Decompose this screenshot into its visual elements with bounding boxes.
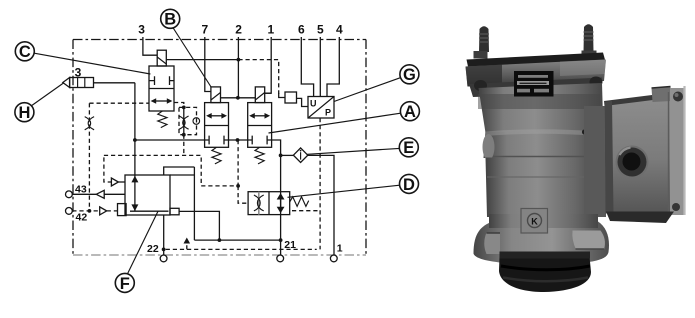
body collar ridge — [484, 132, 602, 159]
port 43 connector circle — [66, 191, 73, 198]
mounting stud right — [584, 24, 594, 52]
block bottom shadow — [606, 212, 674, 224]
throttle on exhaust pilot line — [85, 103, 94, 211]
callout line B — [173, 28, 211, 88]
svg-text:F: F — [120, 275, 130, 293]
wire silencer H to relay pilot line — [94, 82, 135, 84]
callout line G — [334, 78, 400, 102]
svg-text:E: E — [403, 139, 414, 157]
svg-text:42: 42 — [76, 211, 88, 223]
wire valve B2 to supply node — [272, 140, 281, 255]
port 43 wire with nozzle — [72, 190, 125, 198]
wire port 4 to sensor G — [327, 37, 339, 97]
flange body — [466, 60, 607, 87]
port 42 dashed wire with nozzle — [72, 207, 117, 215]
callout line F — [128, 211, 158, 273]
dashed wire to connector block — [238, 60, 278, 94]
label circle H — [15, 103, 34, 122]
svg-text:6: 6 — [298, 23, 305, 37]
svg-text:B: B — [164, 11, 176, 29]
label circle B — [161, 9, 180, 28]
name plate — [514, 71, 554, 97]
wire solenoid B2 to port 1 — [265, 92, 272, 94]
callout line D — [288, 185, 400, 197]
wire port 3 to valve C solenoid — [143, 37, 157, 55]
svg-text:U: U — [310, 99, 317, 109]
wire supply node to filter E — [281, 154, 294, 156]
svg-text:3: 3 — [75, 66, 82, 80]
wire port 2 down to solenoid rail — [237, 37, 239, 98]
port 42 connector circle — [66, 208, 73, 215]
junction solenoid rail — [236, 96, 240, 100]
wire filter E to port 1 — [308, 155, 334, 254]
svg-text:C: C — [19, 43, 31, 61]
filter E — [293, 148, 307, 163]
label circle D — [400, 174, 419, 193]
wire valve C solenoid to port 2 rail — [166, 59, 238, 61]
wire into connector block — [279, 93, 285, 98]
throttle and check valve block — [179, 106, 200, 137]
connector block — [285, 92, 308, 107]
flange bolt right — [590, 77, 603, 88]
wire relay F outlet to delivery gallery — [179, 211, 219, 240]
wire port 5 to sensor G — [319, 37, 321, 97]
svg-text:4: 4 — [336, 23, 343, 37]
callout line C — [34, 53, 150, 74]
solenoid valve B2 — [248, 87, 272, 164]
sensor dashed sense line — [319, 118, 321, 249]
svg-text:22: 22 — [147, 243, 159, 255]
solenoid valve B1 — [205, 87, 229, 164]
junction pilot gallery — [133, 138, 137, 142]
solenoid block — [605, 93, 674, 214]
main pilot gallery wire (vertical) — [134, 83, 136, 211]
svg-text:H: H — [18, 104, 30, 122]
pressure sensor G — [308, 97, 334, 119]
wire port 6 to sensor G — [301, 37, 313, 97]
port 1 connector circle — [330, 255, 337, 262]
svg-text:1: 1 — [267, 23, 274, 37]
block screws — [673, 92, 683, 102]
dashed pilot down from throttle block — [183, 135, 185, 156]
svg-text:21: 21 — [284, 239, 296, 251]
label circle C — [15, 42, 34, 61]
wire valve B1 to valve B2 — [229, 139, 248, 141]
delivery gallery wire — [194, 239, 280, 241]
label circle A — [400, 102, 419, 121]
port 22 connector circle — [160, 255, 167, 262]
logo plate — [521, 209, 548, 234]
junction supply node — [279, 154, 283, 158]
solenoid block neck — [584, 106, 606, 217]
dashed pilot from valve C outlet — [174, 103, 184, 108]
wire relay F to port 22 — [163, 215, 165, 255]
dashed pilot wire to valve C inlet — [89, 102, 149, 104]
junction on port 2 wire — [237, 58, 241, 62]
svg-text:7: 7 — [201, 23, 208, 37]
relay valve F — [118, 167, 195, 240]
svg-text:P: P — [325, 108, 331, 118]
label circle F — [115, 273, 134, 292]
wire solenoid B1 to solenoid B2 — [221, 97, 256, 99]
shadow notch body-block — [588, 134, 607, 152]
solenoid valve C — [149, 50, 174, 127]
junction at port 21 line — [279, 238, 283, 242]
wire gallery to valve B1 inlet — [135, 139, 205, 141]
rubber boot — [499, 257, 591, 293]
wire port 1 to valve B2 solenoid — [265, 37, 272, 93]
upper body — [479, 83, 604, 136]
junction delivery gallery — [218, 238, 222, 242]
block port hole — [616, 146, 649, 179]
pilot control dashed gallery — [104, 140, 248, 203]
svg-text:3: 3 — [138, 23, 145, 37]
bottom dashed exhaust gallery — [166, 238, 317, 250]
svg-text:43: 43 — [75, 184, 87, 196]
label circle G — [400, 65, 419, 84]
svg-text:5: 5 — [317, 23, 324, 37]
enclosure frame (dash-dot boundary of assembly) — [73, 40, 366, 256]
flange top bar — [467, 53, 606, 70]
svg-text:G: G — [403, 66, 416, 84]
lower flare — [474, 222, 610, 265]
svg-text:D: D — [403, 176, 415, 194]
mid cylinder — [486, 158, 601, 218]
pressure limiter D — [248, 192, 320, 215]
junction between B1 and B2 — [236, 138, 240, 142]
callout line A — [269, 113, 401, 133]
pilot nozzle into relay F — [104, 157, 125, 186]
left lip — [484, 233, 500, 255]
junction port 22 line — [162, 248, 166, 252]
svg-text:A: A — [404, 103, 416, 121]
callout line H — [32, 83, 64, 106]
callout line E — [307, 148, 399, 154]
label circle E — [399, 138, 418, 157]
exhaust silencer H — [63, 78, 94, 88]
wire port 7 to valve B1 solenoid — [205, 37, 211, 92]
svg-text:1: 1 — [337, 243, 343, 255]
flange underside shadow — [469, 78, 602, 98]
svg-text:2: 2 — [235, 23, 242, 37]
vent hole — [582, 129, 587, 134]
port 21 connector circle — [277, 255, 284, 262]
svg-text:K: K — [531, 217, 538, 227]
mounting stud left — [479, 26, 489, 52]
right step tab — [572, 231, 605, 250]
flange bolt left — [474, 80, 487, 91]
